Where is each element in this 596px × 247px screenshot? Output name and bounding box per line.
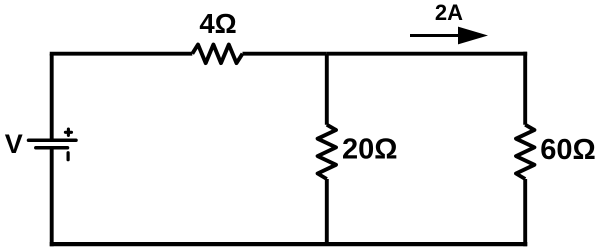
- svg-text:60Ω: 60Ω: [540, 134, 596, 166]
- wire: right branch bottom segment: [523, 179, 527, 246]
- svg-text:4Ω: 4Ω: [199, 8, 236, 39]
- resistor R3 60-ohm zigzag: [516, 125, 534, 179]
- wire: middle branch bottom segment: [325, 179, 329, 244]
- wire: middle branch top segment: [325, 54, 329, 125]
- battery V plates: [29, 140, 77, 148]
- resistor R1 4-ohm zigzag: [192, 45, 242, 64]
- wire: bottom wire: [50, 242, 528, 246]
- current arrow 2A: [410, 27, 488, 45]
- wire: left branch top segment (top plate of battery up to top-left corner): [50, 54, 54, 141]
- wire: top wire from middle junction to top-right corner: [327, 52, 527, 56]
- svg-text:20Ω: 20Ω: [342, 134, 398, 166]
- battery minus tick: [66, 153, 69, 160]
- wire: top wire from 4-ohm resistor to middle junction: [243, 52, 327, 56]
- resistor R2 20-ohm zigzag: [318, 125, 336, 179]
- wire: right branch top segment: [523, 52, 527, 125]
- svg-text:V: V: [5, 129, 23, 159]
- wire: top wire from top-left corner to 4-ohm resistor: [50, 52, 193, 56]
- svg-text:2A: 2A: [435, 0, 463, 25]
- battery plus sign: [65, 129, 71, 135]
- wire: left branch bottom segment (battery bottom plate to bottom-left corner): [50, 148, 54, 246]
